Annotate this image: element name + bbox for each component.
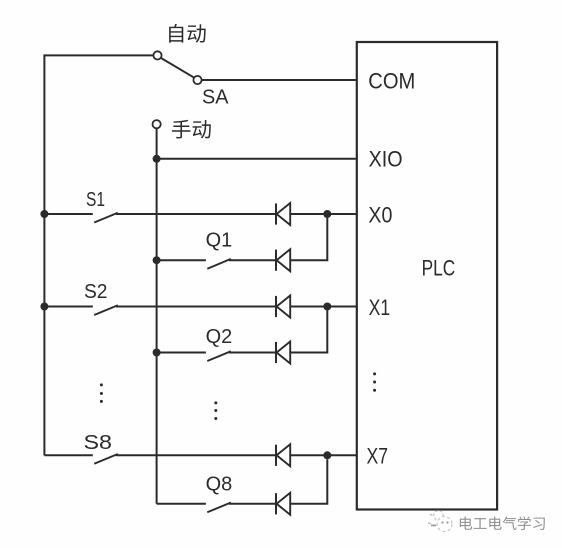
svg-text:Q1: Q1 <box>206 230 233 252</box>
wire: junction to PLC X7 <box>327 454 357 456</box>
wire: left bus from SA auto contact down to S8 row <box>44 55 157 455</box>
ellipsis: PLC inputs X2..X6 <box>373 372 376 391</box>
junction: manual bus / Q2 row <box>153 349 161 357</box>
diode on S8 row <box>276 444 290 466</box>
wire: diode to junction column (S1 row) <box>290 213 327 215</box>
wire: manual bus to switch Q1 <box>157 259 206 261</box>
svg-text:XIO: XIO <box>369 146 403 171</box>
switch S2 blade <box>94 305 118 315</box>
wire: junction to PLC X0 <box>327 213 357 215</box>
wire: diode to junction column (S2 row) <box>290 306 327 308</box>
svg-text:X1: X1 <box>369 295 391 320</box>
ellipsis: more Q switches <box>214 401 217 420</box>
diode on S1 row <box>276 203 290 225</box>
wire: Q1 diode up to X-row junction <box>290 218 327 260</box>
svg-text:S8: S8 <box>84 432 113 454</box>
wire: left bus to switch S8 <box>44 454 92 456</box>
switch Q2 blade <box>207 351 231 361</box>
svg-text:X7: X7 <box>367 444 389 469</box>
svg-text:X0: X0 <box>368 202 392 227</box>
wire: manual bus to PLC XIO <box>157 158 357 160</box>
diode on S2 row <box>276 296 290 318</box>
wire: left bus to switch S2 <box>44 306 92 308</box>
svg-text:S1: S1 <box>86 189 105 211</box>
watermark text 电工电气学习 <box>460 516 546 531</box>
diode on Q8 row <box>276 493 290 515</box>
ellipsis: more S switches <box>100 383 103 403</box>
junction: S2/Q2 to X1 <box>323 303 331 311</box>
wire: switch Q1 to diode <box>229 259 276 261</box>
junction: S1/Q1 to X0 <box>323 210 331 218</box>
contact: 手动 (manual) terminal <box>153 120 161 128</box>
svg-text:S2: S2 <box>84 281 108 303</box>
svg-text:COM: COM <box>368 69 415 94</box>
wire: left bus to switch S1 <box>44 213 92 215</box>
switch S1 blade <box>94 213 118 223</box>
svg-text:PLC: PLC <box>422 255 456 280</box>
wire: switch Q8 to diode <box>229 503 276 505</box>
wire: Q2 diode up to X-row junction <box>290 310 327 352</box>
wire: junction to PLC X1 <box>327 306 357 308</box>
contact: SA lower terminal to COM <box>193 76 201 84</box>
junction: left bus / S2 row <box>40 303 48 311</box>
switch SA blade <box>159 57 197 79</box>
watermark icon (sketch doodle) <box>428 511 452 532</box>
contact: SA upper (自动) terminal <box>153 51 161 59</box>
diode on Q1 row <box>276 249 290 271</box>
switch Q1 blade <box>207 259 231 269</box>
svg-text:Q8: Q8 <box>206 473 233 495</box>
wire: manual bus down to Q8 row <box>156 129 158 504</box>
wire: switch Q2 to diode <box>229 352 276 354</box>
wire: switch S1 to diode <box>116 213 276 215</box>
wire: switch S2 to diode <box>116 306 276 308</box>
wire: switch S8 to diode <box>116 454 276 456</box>
wire: manual bus to switch Q8 <box>157 503 206 505</box>
PLC box U1 <box>357 42 497 510</box>
label 手动 (manual) <box>172 120 211 139</box>
diode on Q2 row <box>276 342 290 364</box>
svg-text:Q2: Q2 <box>206 326 233 348</box>
junction: manual bus / Q1 row <box>153 256 161 264</box>
junction: manual bus / XIO wire <box>153 155 161 163</box>
switch S8 blade <box>94 454 118 464</box>
switch Q8 blade <box>207 503 231 513</box>
junction: left bus / S1 row <box>40 210 48 218</box>
wire: Q8 diode up to X-row junction <box>290 459 327 504</box>
wire: diode to junction column (S8 row) <box>290 454 327 456</box>
wire: SA to PLC COM <box>202 79 357 81</box>
junction: S8/Q8 to X7 <box>323 451 331 459</box>
wire: manual bus to switch Q2 <box>157 352 206 354</box>
svg-text:SA: SA <box>202 87 229 109</box>
label 自动 (auto) <box>169 24 206 43</box>
